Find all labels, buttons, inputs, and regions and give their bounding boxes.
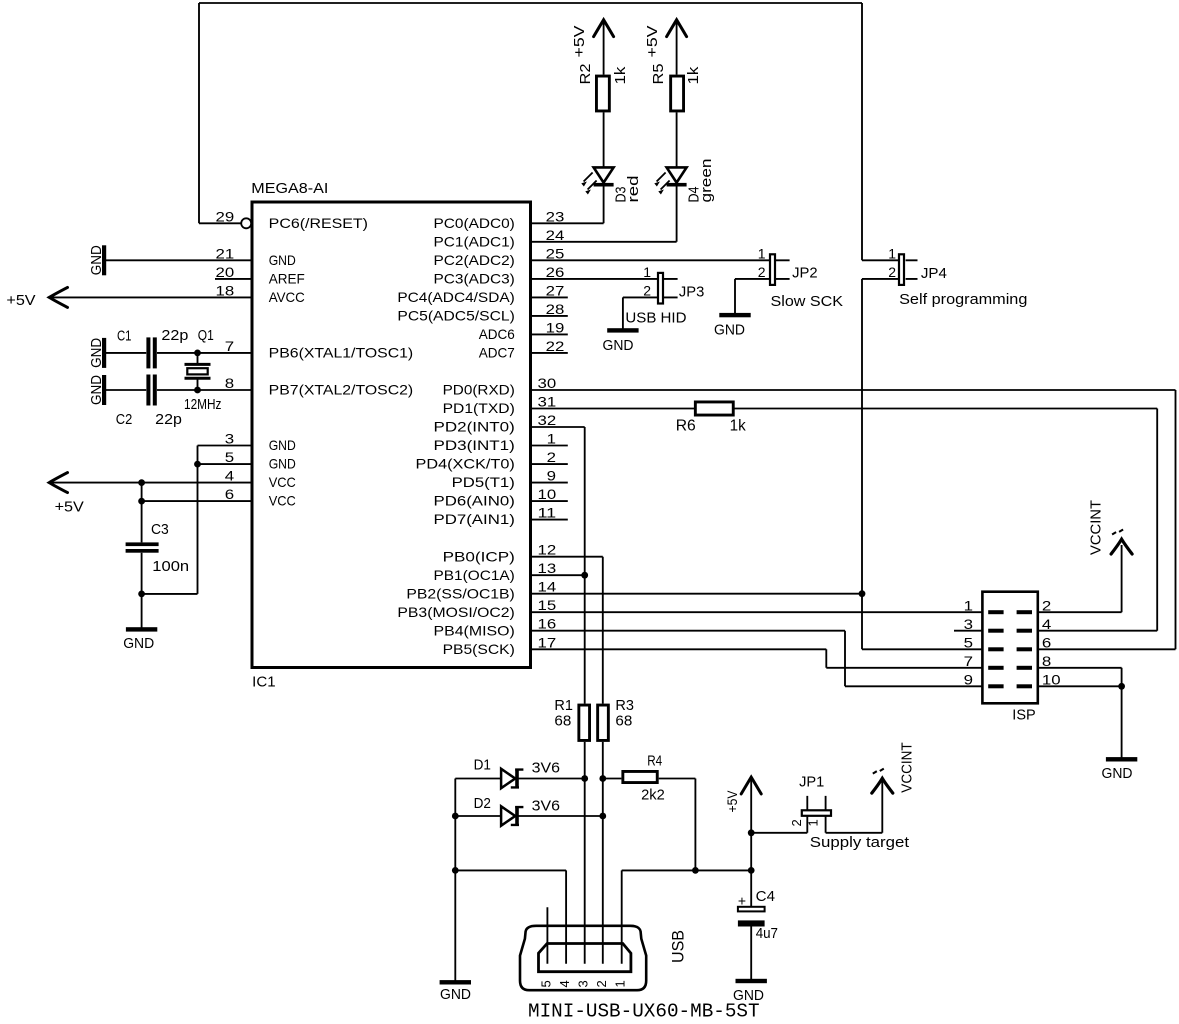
svg-text:1: 1 bbox=[888, 245, 896, 261]
svg-text:5: 5 bbox=[964, 635, 974, 651]
svg-text:green: green bbox=[698, 159, 715, 203]
svg-text:68: 68 bbox=[554, 713, 571, 730]
svg-text:D2: D2 bbox=[474, 795, 491, 812]
svg-text:GND: GND bbox=[269, 252, 296, 268]
svg-text:100n: 100n bbox=[152, 558, 189, 575]
svg-text:ADC6: ADC6 bbox=[479, 326, 515, 342]
svg-text:17: 17 bbox=[538, 634, 557, 650]
svg-text:PC0(ADC0): PC0(ADC0) bbox=[434, 215, 515, 231]
svg-text:PC3(ADC3): PC3(ADC3) bbox=[434, 271, 515, 287]
svg-text:red: red bbox=[625, 176, 642, 203]
svg-text:1k: 1k bbox=[730, 418, 747, 435]
svg-text:1: 1 bbox=[964, 597, 974, 613]
svg-text:9: 9 bbox=[964, 672, 974, 688]
svg-text:PB6(XTAL1/TOSC1): PB6(XTAL1/TOSC1) bbox=[269, 345, 414, 361]
svg-text:AREF: AREF bbox=[269, 271, 305, 287]
svg-text:PD5(T1): PD5(T1) bbox=[452, 474, 515, 490]
svg-text:PB3(MOSI/OC2): PB3(MOSI/OC2) bbox=[397, 604, 514, 620]
svg-text:32: 32 bbox=[538, 412, 557, 428]
svg-text:4u7: 4u7 bbox=[756, 925, 778, 942]
svg-text:GND: GND bbox=[269, 437, 296, 453]
svg-text:6: 6 bbox=[225, 486, 235, 502]
svg-text:JP2: JP2 bbox=[792, 265, 818, 282]
svg-text:R2: R2 bbox=[577, 64, 594, 85]
svg-text:D1: D1 bbox=[474, 757, 491, 774]
svg-text:PC1(ADC1): PC1(ADC1) bbox=[434, 233, 515, 249]
svg-text:C4: C4 bbox=[756, 888, 775, 905]
svg-text:2: 2 bbox=[547, 449, 557, 465]
svg-text:10: 10 bbox=[1042, 672, 1061, 688]
svg-text:JP4: JP4 bbox=[921, 265, 947, 282]
svg-text:2: 2 bbox=[1042, 597, 1052, 613]
svg-text:PC5(ADC5/SCL): PC5(ADC5/SCL) bbox=[397, 308, 514, 324]
svg-text:1k: 1k bbox=[612, 66, 629, 84]
svg-text:23: 23 bbox=[546, 208, 565, 224]
svg-text:19: 19 bbox=[546, 319, 565, 335]
svg-text:VCCINT: VCCINT bbox=[1088, 500, 1105, 555]
svg-text:GND: GND bbox=[269, 456, 296, 472]
svg-text:12: 12 bbox=[538, 542, 557, 558]
svg-text:GND: GND bbox=[1102, 765, 1133, 782]
svg-text:1: 1 bbox=[613, 980, 628, 987]
svg-text:68: 68 bbox=[615, 713, 632, 730]
svg-text:15: 15 bbox=[538, 597, 557, 613]
svg-text:R1: R1 bbox=[554, 697, 573, 714]
svg-text:3V6: 3V6 bbox=[532, 760, 560, 777]
svg-text:22: 22 bbox=[546, 338, 565, 354]
svg-text:PD4(XCK/T0): PD4(XCK/T0) bbox=[416, 456, 515, 472]
svg-text:PB7(XTAL2/TOSC2): PB7(XTAL2/TOSC2) bbox=[269, 382, 414, 398]
svg-text:2k2: 2k2 bbox=[641, 787, 665, 804]
svg-text:28: 28 bbox=[546, 301, 565, 317]
svg-text:4: 4 bbox=[1042, 616, 1052, 632]
svg-text:29: 29 bbox=[216, 208, 235, 224]
svg-text:+5V: +5V bbox=[6, 292, 35, 309]
svg-text:ISP: ISP bbox=[1012, 707, 1035, 724]
svg-text:+5V: +5V bbox=[571, 26, 588, 58]
svg-text:31: 31 bbox=[538, 394, 557, 410]
svg-text:MEGA8-AI: MEGA8-AI bbox=[251, 180, 328, 197]
svg-text:24: 24 bbox=[546, 227, 565, 243]
svg-text:Self programming: Self programming bbox=[899, 291, 1027, 308]
svg-text:20: 20 bbox=[216, 264, 235, 280]
svg-text:14: 14 bbox=[538, 579, 557, 595]
svg-text:MINI-USB-UX60-MB-5ST: MINI-USB-UX60-MB-5ST bbox=[528, 1001, 760, 1023]
svg-text:Q1: Q1 bbox=[198, 327, 214, 344]
svg-text:+5V: +5V bbox=[55, 499, 84, 516]
svg-text:USB: USB bbox=[669, 930, 688, 963]
svg-text:8: 8 bbox=[1042, 653, 1052, 669]
svg-text:6: 6 bbox=[1042, 635, 1052, 651]
svg-text:C1: C1 bbox=[117, 328, 132, 345]
svg-text:R4: R4 bbox=[647, 753, 662, 770]
svg-text:2: 2 bbox=[594, 980, 609, 987]
svg-text:26: 26 bbox=[546, 264, 565, 280]
svg-text:PD6(AIN0): PD6(AIN0) bbox=[434, 493, 515, 509]
svg-text:12MHz: 12MHz bbox=[184, 396, 221, 413]
svg-text:22p: 22p bbox=[155, 411, 182, 428]
svg-text:1: 1 bbox=[643, 264, 651, 280]
svg-text:GND: GND bbox=[440, 986, 471, 1003]
svg-text:GND: GND bbox=[88, 338, 105, 368]
svg-text:R5: R5 bbox=[650, 64, 667, 85]
svg-text:PD2(INT0): PD2(INT0) bbox=[434, 419, 515, 435]
svg-text:7: 7 bbox=[225, 338, 235, 354]
svg-text:JP3: JP3 bbox=[679, 284, 704, 301]
svg-text:VCC: VCC bbox=[269, 493, 296, 509]
svg-text:1: 1 bbox=[806, 819, 821, 826]
svg-text:2: 2 bbox=[888, 264, 896, 280]
svg-text:+5V: +5V bbox=[724, 790, 740, 813]
svg-text:3: 3 bbox=[964, 616, 974, 632]
svg-text:1: 1 bbox=[758, 245, 766, 261]
svg-text:IC1: IC1 bbox=[252, 674, 275, 691]
svg-text:10: 10 bbox=[538, 486, 557, 502]
svg-text:7: 7 bbox=[964, 653, 974, 669]
svg-text:GND: GND bbox=[603, 337, 634, 354]
svg-text:C2: C2 bbox=[116, 411, 133, 428]
svg-text:2: 2 bbox=[643, 283, 651, 299]
svg-text:VCCINT: VCCINT bbox=[898, 742, 915, 792]
svg-text:30: 30 bbox=[538, 375, 557, 391]
svg-text:GND: GND bbox=[123, 635, 154, 652]
svg-text:+5V: +5V bbox=[644, 26, 661, 58]
svg-text:1: 1 bbox=[547, 431, 557, 447]
svg-text:9: 9 bbox=[547, 468, 557, 484]
svg-text:Supply target: Supply target bbox=[810, 834, 910, 851]
svg-text:3: 3 bbox=[576, 980, 591, 987]
svg-text:22p: 22p bbox=[161, 327, 188, 344]
svg-text:GND: GND bbox=[714, 321, 745, 338]
svg-text:2: 2 bbox=[758, 264, 766, 280]
svg-text:USB HID: USB HID bbox=[625, 310, 686, 327]
svg-text:1k: 1k bbox=[685, 66, 702, 84]
svg-text:21: 21 bbox=[216, 245, 235, 261]
svg-text:PB2(SS/OC1B): PB2(SS/OC1B) bbox=[406, 585, 514, 601]
svg-text:13: 13 bbox=[538, 560, 557, 576]
svg-text:+: + bbox=[738, 893, 746, 909]
svg-text:3V6: 3V6 bbox=[532, 798, 560, 815]
svg-text:3: 3 bbox=[225, 431, 235, 447]
svg-text:PB0(ICP): PB0(ICP) bbox=[443, 548, 515, 564]
svg-text:R6: R6 bbox=[676, 418, 696, 435]
svg-text:GND: GND bbox=[88, 245, 105, 275]
svg-text:PD7(AIN1): PD7(AIN1) bbox=[434, 511, 515, 527]
svg-text:PB5(SCK): PB5(SCK) bbox=[443, 641, 515, 657]
svg-text:27: 27 bbox=[546, 282, 565, 298]
svg-text:4: 4 bbox=[225, 468, 235, 484]
svg-text:18: 18 bbox=[216, 282, 235, 298]
svg-text:4: 4 bbox=[557, 980, 572, 987]
svg-text:PC4(ADC4/SDA): PC4(ADC4/SDA) bbox=[397, 289, 514, 305]
svg-text:R3: R3 bbox=[615, 697, 634, 714]
svg-text:ADC7: ADC7 bbox=[479, 345, 515, 361]
svg-text:11: 11 bbox=[538, 505, 557, 521]
svg-text:PC2(ADC2): PC2(ADC2) bbox=[434, 252, 515, 268]
svg-text:PD0(RXD): PD0(RXD) bbox=[443, 382, 515, 398]
svg-text:2: 2 bbox=[789, 819, 804, 826]
svg-text:PB1(OC1A): PB1(OC1A) bbox=[434, 567, 515, 583]
svg-text:JP1: JP1 bbox=[799, 774, 824, 791]
svg-text:25: 25 bbox=[546, 245, 565, 261]
svg-text:PD1(TXD): PD1(TXD) bbox=[443, 400, 515, 416]
svg-text:16: 16 bbox=[538, 616, 557, 632]
svg-text:AVCC: AVCC bbox=[269, 289, 305, 305]
svg-text:5: 5 bbox=[225, 449, 235, 465]
svg-text:8: 8 bbox=[225, 375, 235, 391]
svg-text:PB4(MISO): PB4(MISO) bbox=[434, 622, 515, 638]
svg-text:PC6(/RESET): PC6(/RESET) bbox=[269, 215, 368, 231]
svg-text:VCC: VCC bbox=[269, 474, 296, 490]
svg-text:Slow SCK: Slow SCK bbox=[771, 293, 844, 310]
svg-text:C3: C3 bbox=[151, 521, 169, 538]
svg-text:5: 5 bbox=[538, 980, 553, 987]
svg-text:PD3(INT1): PD3(INT1) bbox=[434, 437, 515, 453]
svg-text:GND: GND bbox=[88, 375, 105, 405]
